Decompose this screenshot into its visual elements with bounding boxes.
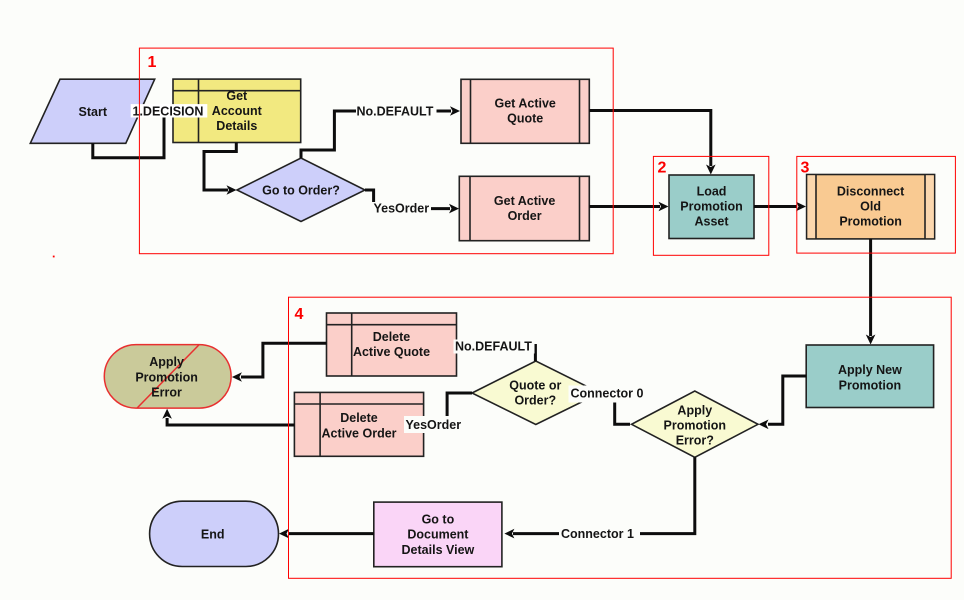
decision Apply Promotion Error? (diamond) xyxy=(632,391,759,457)
wire Go to Document Details View to End xyxy=(288,532,374,535)
step Disconnect Old Promotion xyxy=(807,175,935,239)
red dot artifact xyxy=(53,256,55,258)
svg-text:Apply: Apply xyxy=(149,355,184,369)
svg-text:Order: Order xyxy=(508,209,542,223)
svg-text:End: End xyxy=(201,528,225,542)
step Get Active Order xyxy=(459,176,589,240)
svg-text:Promotion: Promotion xyxy=(135,370,198,384)
svg-text:Error: Error xyxy=(151,386,182,400)
wire YesOrder to Get Active Order xyxy=(431,207,450,210)
svg-text:Asset: Asset xyxy=(694,214,729,228)
start terminal (parallelogram) xyxy=(30,79,154,143)
svg-text:YesOrder: YesOrder xyxy=(374,202,430,216)
svg-text:Connector 1: Connector 1 xyxy=(561,527,634,541)
svg-text:3: 3 xyxy=(801,160,810,177)
svg-text:1.DECISION: 1.DECISION xyxy=(133,104,204,118)
wire Delete Active Order to Apply Promotion Error xyxy=(167,418,294,425)
terminal End (stadium) xyxy=(150,501,279,566)
svg-text:Get Active: Get Active xyxy=(495,97,556,111)
wire Disconnect Old Promotion to Apply New Promotion xyxy=(869,239,872,336)
svg-text:Account: Account xyxy=(212,104,263,118)
svg-text:Disconnect: Disconnect xyxy=(837,184,905,198)
decision Go to Order? (diamond) xyxy=(237,158,365,222)
group box 1 xyxy=(139,48,613,254)
svg-text:Apply New: Apply New xyxy=(838,363,902,377)
group box 4 xyxy=(289,297,952,578)
svg-text:1: 1 xyxy=(148,54,157,71)
svg-text:No.DEFAULT: No.DEFAULT xyxy=(357,105,434,119)
wire Apply Promotion Error? to Go to Document Details View (Connector 1) xyxy=(513,457,695,533)
step Apply New Promotion xyxy=(806,345,933,408)
wire start to 1.DECISION xyxy=(93,118,164,158)
step Load Promotion Asset xyxy=(669,175,754,239)
svg-text:4: 4 xyxy=(295,306,304,323)
svg-text:Get: Get xyxy=(226,89,248,103)
svg-text:No.DEFAULT: No.DEFAULT xyxy=(455,340,532,354)
wire Load Promotion Asset to Disconnect Old Promotion xyxy=(754,205,797,208)
svg-text:Get Active: Get Active xyxy=(494,194,555,208)
svg-text:2: 2 xyxy=(658,160,667,177)
step Get Account Details xyxy=(173,79,301,142)
group box 2 xyxy=(653,156,768,255)
wire No.DEFAULT to Get Active Quote xyxy=(437,110,452,113)
decision Quote or Order? (diamond) xyxy=(472,361,600,425)
svg-text:Quote: Quote xyxy=(507,112,543,126)
svg-text:Load: Load xyxy=(697,184,727,198)
wire Get Account Details to Go to Order? xyxy=(204,143,236,191)
svg-text:Promotion: Promotion xyxy=(680,199,743,213)
svg-text:Promotion: Promotion xyxy=(839,214,902,228)
svg-text:Start: Start xyxy=(79,105,108,119)
wire Go to Order? up to No.DEFAULT xyxy=(301,111,356,158)
wire Delete Active Quote to Apply Promotion Error xyxy=(241,343,327,377)
wire Apply New Promotion to Apply Promotion Error? xyxy=(768,376,806,424)
step Get Active Quote xyxy=(461,79,589,143)
wire Go to Order? to YesOrder xyxy=(365,190,374,202)
step Delete Active Order xyxy=(294,392,423,456)
svg-text:Go to Order?: Go to Order? xyxy=(262,183,340,197)
svg-text:Delete: Delete xyxy=(340,411,378,425)
terminal Apply Promotion Error (stadium, crossed) xyxy=(104,345,231,409)
svg-text:Active Quote: Active Quote xyxy=(353,345,430,359)
svg-text:Order?: Order? xyxy=(514,393,556,407)
connector label Connector 0 xyxy=(569,386,649,403)
connector label YesOrder (bottom) xyxy=(404,416,462,433)
connector label No.DEFAULT (bottom) xyxy=(454,340,535,354)
connector label 1.DECISION xyxy=(131,104,208,118)
svg-text:Details View: Details View xyxy=(402,543,475,557)
svg-text:Error?: Error? xyxy=(676,433,714,447)
svg-text:Go to: Go to xyxy=(422,513,455,527)
wire Quote or Order? to Apply Promotion Error? (Connector 0) xyxy=(600,393,630,424)
svg-text:Old: Old xyxy=(860,199,881,213)
wire Quote or Order? to YesOrder (bottom) xyxy=(447,393,472,419)
wire Get Active Quote to Load Promotion Asset xyxy=(589,111,711,167)
svg-text:Details: Details xyxy=(216,119,257,133)
svg-text:Connector 0: Connector 0 xyxy=(571,387,644,401)
wire Get Active Order to Load Promotion Asset xyxy=(589,205,660,208)
step Delete Active Quote xyxy=(327,313,457,376)
svg-text:Active Order: Active Order xyxy=(321,426,396,440)
svg-text:YesOrder: YesOrder xyxy=(406,418,462,432)
step Go to Document Details View xyxy=(374,502,502,567)
wire Quote or Order? up to No.DEFAULT (bottom) xyxy=(534,344,537,361)
group box 3 xyxy=(797,156,956,253)
svg-text:Delete: Delete xyxy=(373,330,411,344)
svg-text:Quote or: Quote or xyxy=(509,378,561,392)
connector label Connector 1 xyxy=(559,526,640,542)
svg-text:Promotion: Promotion xyxy=(839,378,902,392)
svg-text:Promotion: Promotion xyxy=(664,419,727,433)
svg-text:Apply: Apply xyxy=(677,404,712,418)
svg-text:Document: Document xyxy=(407,528,469,542)
